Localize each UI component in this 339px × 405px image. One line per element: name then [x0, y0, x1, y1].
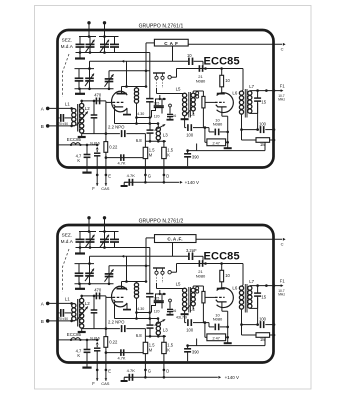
box CAF [154, 39, 188, 46]
label +140 V (block2) [225, 375, 239, 380]
svg-text:10: 10 [187, 53, 192, 58]
svg-text:+140 V: +140 V [185, 180, 199, 185]
svg-text:C.A.F.: C.A.F. [167, 237, 183, 242]
label 3.2pF [186, 248, 197, 253]
label GRUPPO N.2761/2 [139, 218, 184, 224]
wire +140V (block2) [164, 376, 221, 379]
svg-text:+140 V: +140 V [225, 375, 239, 380]
svg-text:3.2pF: 3.2pF [186, 248, 197, 253]
svg-text:GRUPPO N.2761/2: GRUPPO N.2761/2 [139, 218, 184, 224]
svg-text:43L7/9: 43L7/9 [176, 315, 187, 319]
svg-text:GRUPPO N.2761/1: GRUPPO N.2761/1 [139, 23, 184, 29]
label GRUPPO N.2761/1 [139, 23, 184, 29]
box C.A.F. [155, 235, 197, 243]
label +140 V (block1) [185, 180, 199, 185]
svg-text:C A F: C A F [164, 41, 178, 46]
label 43L7/9 [176, 315, 187, 319]
label 10 (CAF cap) [187, 53, 192, 58]
wire +140V (block1) [164, 181, 183, 184]
